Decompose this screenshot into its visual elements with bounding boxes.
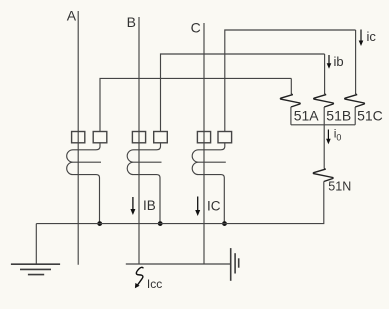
- wire 51B to join bus: [323, 107, 325, 125]
- relay 51C coil (zigzag): [345, 94, 365, 107]
- CT B secondary coil: [127, 143, 161, 224]
- svg-text:ic: ic: [367, 29, 377, 44]
- phase B conductor: [138, 17, 140, 265]
- node: CT A return junction: [97, 221, 102, 226]
- svg-text:B: B: [127, 14, 136, 30]
- CT B primary window (left square): [132, 132, 145, 143]
- wire relay 51B drop: [324, 54, 326, 94]
- arrow ic: [359, 30, 364, 47]
- svg-text:51A: 51A: [294, 107, 320, 123]
- ground (right earth, rotated): [231, 248, 239, 281]
- wire neutral drop to 51N: [323, 125, 325, 169]
- wire 51N to ground bus: [36, 182, 324, 224]
- svg-text:51N: 51N: [328, 180, 351, 194]
- wire CT C secondary to relay 51C: [225, 30, 356, 132]
- wire CT B secondary to relay 51B: [161, 54, 325, 132]
- phase A conductor: [77, 11, 79, 265]
- wire relay 51A drop: [290, 78, 292, 94]
- node: CT C return junction: [222, 221, 227, 226]
- arrow i0: [326, 130, 331, 145]
- svg-text:51C: 51C: [357, 107, 383, 123]
- svg-text:Icc: Icc: [147, 277, 162, 291]
- CT C primary window (left square): [197, 132, 210, 143]
- relay 51A coil (zigzag): [280, 94, 300, 107]
- phase C conductor: [203, 23, 205, 265]
- relay 51B coil (zigzag): [314, 94, 334, 107]
- svg-text:IC: IC: [207, 198, 221, 213]
- svg-text:ib: ib: [334, 54, 344, 69]
- wire CT A secondary to relay 51A: [100, 78, 291, 131]
- wire bus to left earth: [35, 224, 37, 264]
- wire relay 51C drop: [355, 30, 357, 94]
- CT A secondary coil: [67, 143, 101, 224]
- CT B secondary terminal (right square): [154, 132, 168, 143]
- svg-text:A: A: [67, 8, 77, 24]
- relay 51N coil (zigzag): [313, 169, 333, 182]
- arrow IB: [130, 197, 135, 215]
- CT C secondary coil: [192, 143, 226, 224]
- svg-text:IB: IB: [143, 198, 156, 213]
- wire 51A to join bus: [290, 107, 292, 125]
- node: CT B return junction: [158, 221, 163, 226]
- CT C secondary terminal (right square): [218, 132, 232, 143]
- wire relay join line: [291, 124, 355, 126]
- wire 51C to join bus: [354, 107, 356, 125]
- wire fault return (B and C bottoms): [126, 263, 231, 265]
- arrow IC: [195, 197, 200, 217]
- svg-text:C: C: [191, 20, 201, 36]
- arrow ib: [327, 55, 332, 69]
- arrow Icc (fault squiggle): [135, 267, 143, 288]
- CT A secondary terminal (right square): [93, 132, 107, 143]
- svg-text:51B: 51B: [326, 107, 351, 123]
- ground (left earth electrode): [11, 264, 60, 274]
- CT A primary window (left square): [72, 132, 85, 143]
- svg-text:0: 0: [336, 133, 341, 143]
